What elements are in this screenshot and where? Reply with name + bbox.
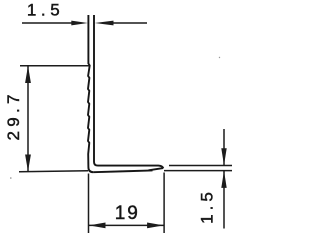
arrow 29.7 down bbox=[25, 155, 31, 172]
dim 29.7: bottom extension line bbox=[19, 170, 88, 173]
speck upper right bbox=[219, 57, 220, 58]
profile wall right edge, inner corner, leg top edge with hooked tip bbox=[94, 15, 163, 168]
arrow 1.5 top pointing right bbox=[71, 21, 88, 26]
dim 29.7: top extension line bbox=[20, 65, 90, 67]
profile wall left serrated edge bbox=[88, 15, 93, 172]
svg-text:19: 19 bbox=[115, 203, 140, 224]
arrow 19 right bbox=[147, 223, 164, 229]
arrow 19 left bbox=[89, 223, 106, 229]
speck lower left bbox=[10, 177, 12, 179]
svg-text:1.5: 1.5 bbox=[198, 188, 217, 224]
svg-text:1.5: 1.5 bbox=[27, 0, 64, 19]
arrow 1.5 right up bbox=[221, 171, 226, 188]
profile leg bottom edge bbox=[93, 170, 152, 172]
dim 19: right extension line bbox=[163, 173, 165, 234]
svg-text:29.7: 29.7 bbox=[4, 90, 23, 140]
dim 1.5 right: top extension line bbox=[169, 165, 232, 167]
dim 29.7: vertical dimension line bbox=[27, 66, 29, 172]
arrow 29.7 up bbox=[25, 66, 31, 83]
arrow 1.5 right down bbox=[221, 148, 226, 165]
dim 19: left extension line bbox=[88, 174, 90, 234]
dim 1.5 right: lower dimension line bbox=[223, 171, 225, 229]
arrow 1.5 top pointing left bbox=[95, 21, 114, 26]
dim 1.5 right: bottom extension line bbox=[164, 170, 232, 172]
profile leg tip underside bbox=[149, 168, 164, 170]
dim 19: dimension line bbox=[89, 224, 164, 226]
dim 1.5 top: left dimension line bbox=[22, 22, 76, 24]
dim 1.5 top: right dimension line bbox=[112, 22, 147, 24]
dim 1.5 right: upper dimension line bbox=[223, 129, 225, 165]
